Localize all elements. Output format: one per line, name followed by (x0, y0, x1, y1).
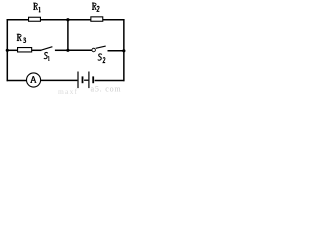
wire bottom ammeter-to-battery segment (41, 79, 78, 81)
wire branch R3-to-S1 (32, 49, 42, 51)
battery cell1 long plate (77, 72, 79, 89)
wire bottom battery-to-right segment (95, 80, 125, 82)
label R2 (92, 3, 97, 10)
resistor R2 (91, 17, 103, 21)
label R1 subscript 1 (39, 7, 41, 12)
battery cell2 short plate (92, 76, 94, 83)
wire top-left segment (7, 19, 29, 21)
label R1 (33, 3, 38, 10)
ammeter A circle (27, 73, 41, 87)
wire branch S2-to-right (108, 50, 124, 52)
node junction middle-branch (66, 49, 69, 52)
wire middle vertical (67, 20, 69, 51)
node junction right-branch (122, 49, 125, 52)
resistor R1 (29, 17, 41, 21)
svg-text:maxf: maxf (58, 87, 78, 95)
label R2 subscript 2 (97, 6, 99, 11)
wire left vertical (6, 19, 8, 81)
node junction top-middle (66, 18, 69, 21)
wire right vertical (123, 19, 125, 81)
switch S2 blade (96, 46, 106, 48)
node junction left-branch (6, 49, 9, 52)
battery cell1 short plate (82, 76, 84, 83)
wire top-middle segment (41, 19, 91, 21)
label R3 (17, 34, 22, 40)
wire branch S1-to-middle (55, 49, 68, 51)
label S1 subscript 1 (48, 56, 49, 60)
label S2 (98, 54, 102, 60)
switch S1 blade (41, 47, 52, 51)
switch S2 pivot circle (92, 48, 96, 52)
resistor R3 (18, 48, 32, 52)
wire bottom-left segment (7, 80, 27, 82)
label S1 (44, 52, 48, 58)
wire branch middle-to-S2 (68, 49, 92, 51)
label S2 subscript 2 (103, 58, 105, 63)
wire branch left-to-R3 (7, 49, 17, 51)
svg-text:a5. com: a5. com (91, 85, 122, 94)
wire battery link dash (84, 79, 88, 81)
wire top-right segment (103, 19, 125, 21)
label R3 subscript 3 (23, 38, 25, 43)
ammeter A letter (30, 76, 36, 82)
battery cell2 long plate (88, 72, 90, 89)
